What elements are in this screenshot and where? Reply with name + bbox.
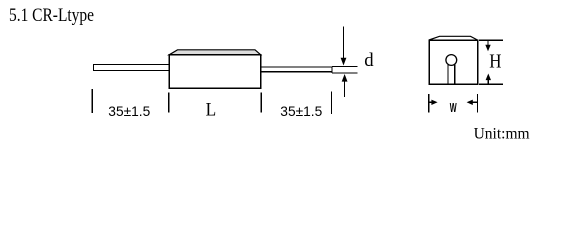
d dimension arrow line down [343,27,345,59]
svg-text:d: d [364,50,374,71]
dimension tick body left [168,93,170,113]
dimension tick left end [91,89,93,113]
dimension tick right lead end [331,92,333,115]
d arrowhead down [341,58,347,66]
svg-text:Unit:mm: Unit:mm [474,125,531,142]
d arrowhead up [342,74,348,82]
W arrowhead left [467,100,473,105]
svg-text:H: H [489,50,501,72]
resistor body front face [169,55,261,89]
W arrow shaft left [429,101,433,103]
lead hole circle [446,55,457,66]
H arrow shaft top [487,40,489,45]
right lead wire [261,67,332,72]
svg-text:L: L [206,100,217,120]
W arrowhead right [431,100,437,105]
left lead wire [94,65,170,71]
lead tip extension lines for d [332,66,357,73]
end view body front face [429,40,478,84]
svg-text:35±1.5: 35±1.5 [280,104,322,120]
H arrowhead up [486,74,491,81]
H bottom extension line [479,83,503,85]
svg-text:W: W [450,100,457,115]
end view body top face [429,36,478,40]
svg-text:5.1 CR-Ltype: 5.1 CR-Ltype [9,5,94,26]
slot right line [454,65,456,84]
H top extension line [479,39,503,41]
H arrow shaft bottom [487,80,489,85]
slot left line [447,65,449,84]
W arrow shaft right [472,101,477,103]
W extension line right [476,94,478,113]
d dimension arrow line up [344,81,346,97]
H arrowhead down [485,45,490,52]
svg-text:35±1.5: 35±1.5 [108,104,150,120]
dimension tick body right [260,93,262,113]
resistor body top face [169,50,261,55]
W extension line left [428,94,430,113]
